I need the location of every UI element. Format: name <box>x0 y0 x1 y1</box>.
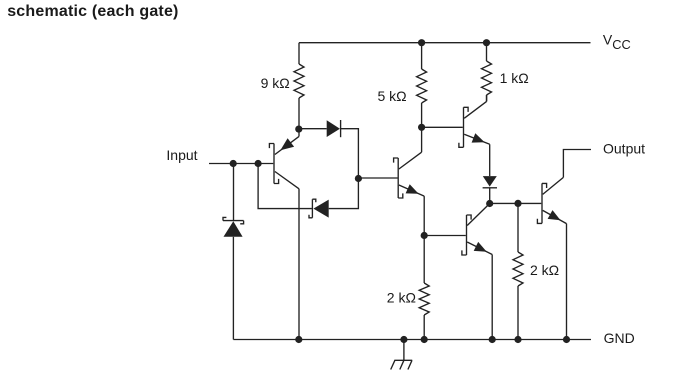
svg-text:9 kΩ: 9 kΩ <box>261 75 290 91</box>
wire Q5 emitter to GND rail <box>566 224 568 340</box>
resistor R2 5 kOhm <box>421 43 423 69</box>
wire Q4 emitter to GND rail <box>491 255 493 340</box>
junction node D / R5 <box>514 200 521 207</box>
transistor Q2 phase splitter <box>394 158 403 198</box>
transistor Q4 lower output <box>462 215 471 255</box>
wire node D to Q5 base <box>490 202 542 204</box>
junction node C <box>421 232 428 239</box>
wire D1 to node B <box>341 129 359 179</box>
wire D2 cathode to input <box>258 164 312 209</box>
wire node A to D1 <box>299 128 327 130</box>
resistor R4 2 kOhm <box>423 236 425 284</box>
wire Q2 emitter to node C <box>423 196 425 235</box>
wire D3 to node D <box>489 188 491 203</box>
wire node to Q3 base <box>422 126 463 128</box>
junction GND / Q5 emitter <box>563 336 570 343</box>
diode D1 <box>327 120 340 137</box>
wire node C to Q4 base <box>424 235 466 237</box>
junction input / D2 <box>255 160 262 167</box>
wire Q3 emitter to D3 <box>489 144 491 176</box>
wire node B to D2 anode <box>329 179 359 209</box>
svg-text:2 kΩ: 2 kΩ <box>530 262 559 278</box>
wire input to D4 <box>233 164 235 221</box>
diode D3 <box>483 176 497 187</box>
wire Q1 collector to GND rail <box>298 189 300 340</box>
wire Q1 emitter to node A <box>298 129 300 136</box>
resistor R5 2 kOhm <box>517 203 519 252</box>
svg-text:GND: GND <box>604 330 635 346</box>
wire D4 anode to GND rail <box>232 237 234 340</box>
transistor Q5 output <box>537 183 546 223</box>
junction node A <box>295 126 302 133</box>
junction GND / R4 <box>421 336 428 343</box>
transistor Q1 input pnp <box>269 144 278 184</box>
wire VCC rail <box>299 42 591 44</box>
resistor R1 9 kOhm <box>298 43 300 64</box>
junction GND / R5 <box>514 336 521 343</box>
svg-text:2 kΩ: 2 kΩ <box>387 289 416 305</box>
resistor R3 1 kOhm <box>486 43 488 61</box>
junction node D <box>486 200 493 207</box>
wire Q5 collector to Output <box>563 150 591 178</box>
svg-text:Output: Output <box>603 140 645 156</box>
junction VCC rail / R3 <box>483 39 490 46</box>
junction GND / Q4 emitter <box>489 336 496 343</box>
svg-text:schematic (each gate): schematic (each gate) <box>7 3 178 20</box>
transistor Q3 <box>459 107 468 147</box>
junction GND / Q1 collector <box>295 336 302 343</box>
schottky clamp diode D4 <box>223 217 244 223</box>
wire Q2 collector to node <box>421 127 423 152</box>
wire Q3 collector to R3 <box>486 95 488 101</box>
wire GND rail <box>233 339 591 341</box>
svg-text:VCC: VCC <box>603 31 631 52</box>
svg-text:Input: Input <box>166 147 197 163</box>
junction node B <box>355 175 362 182</box>
junction R2 / Q3 base node <box>418 124 425 131</box>
svg-text:5 kΩ: 5 kΩ <box>378 88 407 104</box>
wire input <box>209 163 273 165</box>
junction input / D4 <box>230 160 237 167</box>
svg-text:1 kΩ: 1 kΩ <box>500 70 529 86</box>
junction VCC rail / R2 <box>418 39 425 46</box>
ground symbol <box>391 340 413 370</box>
junction GND / ground symbol <box>400 336 407 343</box>
wire node B to Q2 base <box>359 177 398 179</box>
schottky diode D2 <box>313 200 328 218</box>
